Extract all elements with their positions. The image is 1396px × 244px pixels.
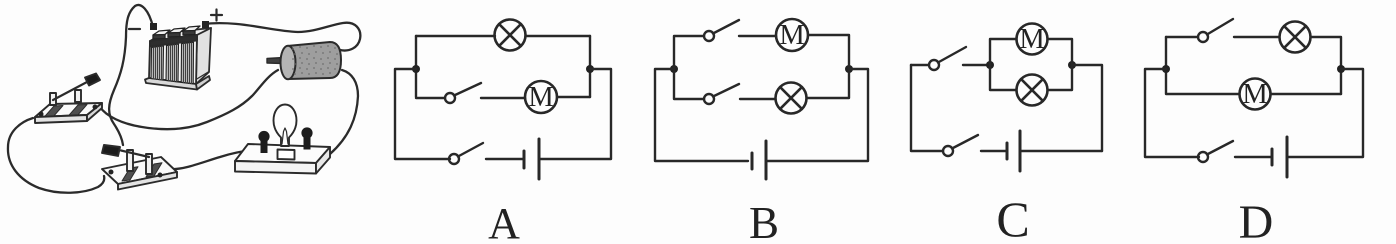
battery (option D) <box>1272 137 1287 177</box>
node B right junction <box>845 65 853 73</box>
wire A top-branch left riser <box>415 36 417 97</box>
lamp L1 (option C) <box>1017 75 1048 106</box>
switch S2 (option A branch) <box>445 83 481 103</box>
node C right junction <box>1068 61 1076 69</box>
wire C bottom right <box>1020 150 1102 152</box>
wire from motor lower right looping down to bulb stand right corner <box>330 70 358 154</box>
svg-text:D: D <box>1239 196 1274 244</box>
wire C bottom to battery <box>981 150 1007 152</box>
lamp L1 (option D) <box>1280 22 1311 53</box>
svg-text:M: M <box>779 20 804 51</box>
switch S1 (option D top branch) <box>1198 19 1233 42</box>
knife switch S2 (pictorial, bottom middle) <box>102 145 177 190</box>
motor M letter (option D) <box>1242 79 1267 110</box>
battery cell caps on the top face <box>153 26 200 39</box>
wire A outer loop left <box>395 69 450 159</box>
switch S2 (option B bottom branch) <box>704 84 739 104</box>
node D right junction <box>1337 65 1345 73</box>
wire D outer loop right <box>1287 69 1363 157</box>
bulb stand terminal posts <box>258 127 312 153</box>
battery terminal posts <box>150 21 209 30</box>
svg-text:A: A <box>488 199 520 244</box>
switch S2 (option C bottom) <box>943 135 978 156</box>
wire B outer loop left <box>655 69 748 161</box>
motor M letter (option B) <box>779 20 804 51</box>
battery cell plates (hatched front panels) <box>151 42 194 83</box>
motor (pictorial cylinder with shaft) <box>267 42 341 79</box>
battery cell plate hatch lines <box>154 43 192 84</box>
minus terminal label <box>129 28 140 30</box>
wire B outer loop right <box>766 69 868 161</box>
switch S2 (option D main) <box>1198 141 1233 162</box>
wire from knife switch S1 right side under battery to motor shaft <box>100 70 278 129</box>
node D left junction <box>1162 65 1170 73</box>
motor M letter (option A) <box>528 82 553 113</box>
battery (option C) <box>1007 131 1020 171</box>
battery (option A) <box>524 139 539 179</box>
node A right junction <box>586 65 594 73</box>
wire from plus terminal across the top to motor <box>203 23 360 51</box>
node C left junction <box>986 61 994 69</box>
motor M (option D) <box>1240 79 1271 110</box>
wire D middle branch <box>1166 37 1341 94</box>
label D <box>1239 196 1274 244</box>
node B left junction <box>670 65 678 73</box>
svg-text:M: M <box>1242 79 1267 110</box>
motor M letter (option C) <box>1019 24 1044 55</box>
lamp bulb on stand (pictorial, bottom right) <box>235 105 330 174</box>
svg-text:M: M <box>1019 24 1044 55</box>
motor M (option B) <box>776 19 808 51</box>
battery (option B) <box>752 141 766 179</box>
wire A top branch to lamp <box>416 35 590 37</box>
svg-text:B: B <box>749 198 779 244</box>
wire A bottom to battery <box>486 158 524 160</box>
wire D top branch <box>1166 37 1341 94</box>
wire A second branch <box>416 97 590 98</box>
wire D bottom to battery <box>1235 156 1272 158</box>
wire A bottom right + outer right <box>539 69 611 159</box>
plus terminal label <box>211 10 222 21</box>
wire from knife switch S2 right side to bulb stand left post <box>171 149 261 169</box>
wire big loop from knife switch S1 left down around to knife switch S2 left corner <box>8 118 104 193</box>
switch S1 (option A main) <box>449 143 483 164</box>
wire C motor branch <box>990 39 1072 65</box>
motor M (option C) <box>1017 24 1048 55</box>
label C <box>996 191 1029 244</box>
wire C right side <box>1072 65 1102 151</box>
lamp L1 (option A) <box>495 20 526 51</box>
battery (accumulator, pictorial) <box>145 28 211 90</box>
wire C left side down <box>911 65 943 151</box>
wire A top-branch right riser <box>589 36 591 97</box>
wire D outer loop left <box>1145 69 1199 157</box>
wire B top branch <box>674 35 849 69</box>
wire from battery minus terminal looping down to knife switch S2 handle <box>109 5 153 145</box>
svg-text:C: C <box>996 191 1029 244</box>
knife switch S1 (pictorial, left) <box>35 74 102 124</box>
motor body stipple shading <box>292 45 338 75</box>
svg-text:M: M <box>528 82 553 113</box>
wire C top left with switch <box>911 64 990 66</box>
switch S1 (option C top) <box>929 47 966 70</box>
lamp L1 (option B) <box>776 83 807 114</box>
label B <box>749 198 779 244</box>
wire C lamp branch <box>990 65 1072 90</box>
switch S1 (option B top branch) <box>704 20 739 41</box>
label A <box>488 199 520 244</box>
motor M (option A) <box>525 81 557 113</box>
node A left junction <box>412 65 420 73</box>
wire B bottom branch <box>674 69 849 99</box>
